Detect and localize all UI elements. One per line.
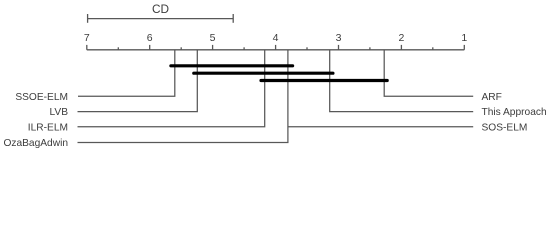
connector OzaBagAdwin — [78, 50, 288, 143]
svg-text:SOS-ELM: SOS-ELM — [482, 122, 528, 133]
connector SOS-ELM — [288, 126, 473, 128]
svg-text:ILR-ELM: ILR-ELM — [28, 122, 68, 133]
clique bar 1 — [171, 64, 293, 67]
connector LVB — [78, 50, 198, 112]
svg-text:5: 5 — [210, 32, 216, 44]
svg-text:7: 7 — [84, 32, 90, 44]
svg-text:3: 3 — [336, 32, 342, 44]
CD interval bracket — [88, 14, 234, 23]
svg-text:OzaBagAdwin: OzaBagAdwin — [3, 138, 68, 149]
clique bar 3 — [261, 79, 387, 82]
clique bar 2 — [194, 72, 333, 75]
connector ARF — [384, 50, 473, 97]
connector This Approach — [330, 50, 474, 112]
svg-text:6: 6 — [147, 32, 153, 44]
connector ILR-ELM — [78, 50, 265, 127]
svg-text:1: 1 — [461, 32, 467, 44]
svg-text:ARF: ARF — [482, 92, 502, 103]
connector SSOE-ELM — [78, 50, 175, 97]
svg-text:SSOE-ELM: SSOE-ELM — [15, 92, 68, 103]
svg-text:CD: CD — [152, 2, 169, 16]
svg-text:2: 2 — [398, 32, 404, 44]
svg-text:4: 4 — [273, 32, 279, 44]
rank axis with ticks — [87, 45, 465, 50]
svg-text:This Approach: This Approach — [482, 107, 547, 118]
svg-text:LVB: LVB — [50, 107, 69, 118]
